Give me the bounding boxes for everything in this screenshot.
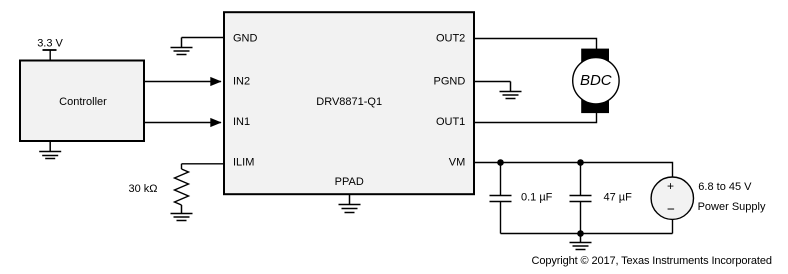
IC U1 DRV8871-Q1 xyxy=(224,12,474,194)
ground (GND pin) xyxy=(171,38,193,55)
svg-text:IN1: IN1 xyxy=(233,116,250,128)
controller block xyxy=(20,61,144,142)
svg-text:OUT2: OUT2 xyxy=(436,33,465,45)
svg-text:OUT1: OUT1 xyxy=(436,116,465,128)
wire GND pin xyxy=(182,37,224,39)
wire VM rail xyxy=(474,163,673,178)
svg-text:VM: VM xyxy=(449,157,466,169)
arrowhead IN2 xyxy=(210,77,221,86)
junction dot (rail ground) xyxy=(577,230,584,237)
svg-text:ILIM: ILIM xyxy=(233,156,254,168)
wire PGND xyxy=(475,81,511,83)
resistor R1 30 kOhm xyxy=(175,169,189,205)
svg-text:Controller: Controller xyxy=(59,96,107,108)
junction dot (C1 top) xyxy=(497,159,504,166)
capacitor C1 0.1 uF xyxy=(490,163,512,234)
svg-text:IN2: IN2 xyxy=(233,76,250,88)
ground (PGND) xyxy=(500,82,522,99)
svg-text:Copyright © 2017, Texas Instru: Copyright © 2017, Texas Instruments Inco… xyxy=(532,255,773,267)
motor BDC brush top xyxy=(581,49,609,64)
svg-text:0.1 µF: 0.1 µF xyxy=(521,192,553,204)
svg-text:−: − xyxy=(667,202,675,217)
svg-text:Power Supply: Power Supply xyxy=(698,201,766,213)
ground (supply rail) xyxy=(570,234,592,250)
motor BDC brush bottom xyxy=(581,99,609,114)
capacitor C2 47 uF xyxy=(570,163,592,234)
svg-text:GND: GND xyxy=(233,33,258,45)
power supply V1 lead bottom xyxy=(672,219,674,233)
wire OUT2 xyxy=(474,39,597,50)
svg-text:DRV8871-Q1: DRV8871-Q1 xyxy=(316,96,382,108)
wire ILIM xyxy=(182,164,224,169)
arrowhead IN1 xyxy=(210,118,221,127)
ground (controller) xyxy=(39,141,61,159)
svg-text:PPAD: PPAD xyxy=(335,176,364,188)
svg-text:6.8 to 45 V: 6.8 to 45 V xyxy=(698,181,752,193)
wire IN2 xyxy=(144,81,221,83)
svg-text:3.3 V: 3.3 V xyxy=(37,37,63,49)
svg-text:30 kΩ: 30 kΩ xyxy=(128,183,157,195)
wire IN1 xyxy=(144,122,221,124)
svg-text:BDC: BDC xyxy=(580,72,612,89)
svg-text:+: + xyxy=(667,179,674,193)
bottom supply rail xyxy=(501,233,673,235)
svg-text:47 µF: 47 µF xyxy=(604,192,633,204)
ground (PPAD) xyxy=(339,195,361,213)
wire OUT1 xyxy=(474,112,597,123)
junction dot (C2 top) xyxy=(577,159,584,166)
power supply V1 xyxy=(651,177,693,219)
svg-text:PGND: PGND xyxy=(434,76,466,88)
ground (resistor) xyxy=(171,205,193,221)
motor BDC body xyxy=(573,57,619,103)
supply 3.3V symbol xyxy=(43,50,57,61)
